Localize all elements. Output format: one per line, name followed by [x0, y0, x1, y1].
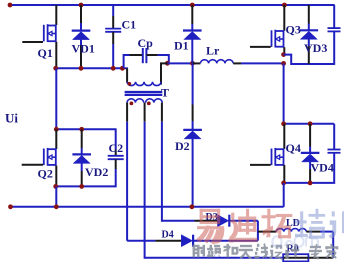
- junction: Q4 drain rail / Q4: [281, 121, 286, 126]
- diode VD3 (antiparallel): [300, 30, 319, 39]
- wire: Lr right pin: [233, 62, 241, 64]
- wire: mid rail (Q1 source node A): [55, 67, 128, 69]
- junction: mid rail / VD1 anode: [79, 66, 84, 71]
- wire: C2 top lead: [115, 128, 117, 149]
- wire: Q2 source lead: [55, 166, 57, 187]
- wire: D4 branch from secondary left lead: [127, 240, 155, 242]
- wire: Q1 drain from top rail: [55, 5, 57, 25]
- svg-text:T: T: [161, 86, 169, 100]
- transistor Q1: [44, 24, 56, 42]
- svg-text:D4: D4: [162, 230, 174, 241]
- junction: top rail / Q3 drain: [282, 3, 287, 8]
- diode VD2 (antiparallel): [72, 154, 91, 163]
- wire: D1 anode lead: [191, 39, 193, 63]
- wire: D1 cathode lead: [191, 5, 193, 30]
- svg-text:Ui: Ui: [5, 111, 18, 126]
- junction: top rail / VD1 cathode: [79, 3, 84, 8]
- wire: VD2 cathode lead: [81, 129, 83, 154]
- wire: bridge-right midpoint down to Q4 rail: [283, 63, 285, 123]
- svg-text:Q4: Q4: [286, 141, 301, 155]
- wire: Q3 gate lead: [250, 46, 271, 48]
- wire: D3 anode pin: [195, 220, 218, 222]
- capacitor C1: [105, 29, 121, 32]
- wire: D2 anode to bottom rail: [192, 139, 194, 207]
- wire: bottom negative input rail (node N): [10, 206, 284, 208]
- transistor Q2: [44, 148, 56, 166]
- wire: C2 bottom pin: [115, 159, 117, 169]
- wire: VD1 cathode lead: [80, 5, 82, 31]
- wire: Q3 source staircase to VD3/cap: [284, 55, 335, 64]
- wire: Cp to resonant node: [158, 55, 169, 63]
- wire: return to center tap: [145, 257, 284, 259]
- wire: VD1 anode to mid rail: [80, 39, 82, 68]
- polarity dot secondary-left: [130, 102, 134, 106]
- transformer T core: [125, 92, 163, 95]
- wire: Q4 gate lead: [250, 164, 271, 166]
- wire: Q4 drain lead: [283, 124, 285, 149]
- wire: Q3 source lead: [283, 47, 285, 54]
- junction: Q4 drain rail / VD4 cathode: [308, 121, 313, 126]
- junction: Q2 source rail / VD2 anode: [79, 184, 84, 189]
- wire: Q3 drain from top rail: [283, 5, 285, 31]
- wire: VD2 anode lead: [81, 163, 83, 186]
- junction: bottom rail / Q2 leg: [54, 204, 59, 209]
- wire: D4 anode pin: [155, 240, 181, 242]
- wire: Q2 source rail: [55, 185, 112, 187]
- svg-text:VD2: VD2: [85, 165, 108, 179]
- wire: Lr left pin: [192, 62, 200, 64]
- transformer T secondary right half: [146, 99, 163, 103]
- wire: VD4 cathode lead: [309, 124, 311, 153]
- wire: C2 top pin: [115, 150, 117, 156]
- svg-text:C1: C1: [122, 18, 137, 32]
- wire: load return to R0: [309, 257, 334, 259]
- svg-text:Q2: Q2: [38, 167, 53, 181]
- wire: transformer primary right lead: [161, 63, 167, 84]
- watermark: big title (semi-transparent): [196, 209, 344, 245]
- junction: resonant rail / D1 anode: [190, 61, 195, 66]
- wire: VD4 anode lead: [309, 162, 311, 183]
- transformer T primary winding: [127, 82, 161, 86]
- svg-text:Q1: Q1: [38, 46, 53, 60]
- diode VD4 (antiparallel): [301, 153, 320, 162]
- transistor Q4: [272, 148, 284, 166]
- junction: Q4 source rail / VD4 anode: [308, 181, 313, 186]
- wire: rectifier node vertical: [257, 221, 259, 241]
- wire: Q4 source to bottom rail: [283, 183, 285, 207]
- svg-text:D2: D2: [175, 139, 190, 153]
- diode D2 (clamp to -rail): [183, 130, 202, 139]
- wire: D3 branch from secondary right lead: [162, 220, 195, 222]
- diode D4: [181, 235, 193, 247]
- wire: secondary left lead: [126, 103, 128, 241]
- capacitor (snubber, Q3): [328, 28, 341, 31]
- wire: D4 cathode to rectifier node: [193, 240, 258, 242]
- wire: secondary right lead: [161, 103, 163, 222]
- wire: LD right pin: [306, 231, 333, 233]
- junction: Q2 source rail / Q2: [53, 184, 58, 189]
- junction: Q3 source node: [281, 52, 286, 57]
- junction: Q4 source rail / Q4: [281, 181, 286, 186]
- wire: load loop right side: [332, 232, 334, 258]
- capacitor (snubber, Q4): [328, 150, 341, 153]
- watermark: faint url ghost letters: [272, 236, 318, 246]
- wire: LD left pin: [258, 231, 276, 233]
- svg-text:VD4: VD4: [311, 161, 334, 175]
- resistor R0: [283, 254, 308, 261]
- junction: top rail / D1 cathode: [190, 3, 195, 8]
- wire: Cp right pin: [147, 54, 158, 56]
- wire: Q4 source lead: [283, 165, 285, 183]
- capacitor C2: [108, 156, 124, 159]
- wire: R0 wire through box: [283, 257, 308, 259]
- wire: top positive input rail (node P): [10, 4, 335, 6]
- wire: Q4 drain rail: [283, 123, 335, 125]
- wire: VD3 cathode lead: [308, 5, 310, 30]
- junction: mid rail / Q1 source: [53, 66, 58, 71]
- polarity dot secondary-mid: [147, 102, 151, 106]
- polarity dot primary: [127, 82, 131, 86]
- wire: snubber cap bottom lead (Q4): [331, 153, 334, 183]
- svg-text:VD3: VD3: [304, 41, 327, 55]
- wire: Q2 drain rail: [55, 128, 115, 130]
- wire: Q1 gate lead: [22, 41, 43, 43]
- inductor LD: [276, 229, 306, 232]
- wire: Q2 drain lead: [55, 129, 57, 149]
- wire: C1 bottom lead: [112, 32, 114, 68]
- junction: Q2 drain rail / VD2 cathode: [79, 127, 84, 132]
- svg-text:Q3: Q3: [286, 23, 301, 37]
- wire: snubber cap bottom lead (Q3): [333, 32, 335, 65]
- wire: Q4 source rail: [283, 182, 331, 184]
- transistor Q3: [272, 30, 284, 48]
- wire: C1 top lead: [112, 5, 114, 28]
- junction: resonant node / Cp: [165, 61, 170, 66]
- svg-text:D1: D1: [174, 39, 189, 53]
- capacitor Cp: [143, 48, 147, 63]
- wire: VD3 anode lead: [308, 39, 310, 64]
- svg-text:C2: C2: [109, 141, 124, 155]
- svg-text:Cp: Cp: [138, 36, 154, 50]
- junction: Q2 drain rail / Q2: [54, 127, 59, 132]
- watermark: subtitle line (gray): [193, 243, 339, 260]
- wire: D2 cathode lead: [192, 63, 194, 129]
- diode D1 (clamp to +rail): [183, 31, 202, 40]
- wire: Q2 source to bottom rail: [55, 186, 57, 206]
- svg-text:Lr: Lr: [206, 44, 220, 58]
- junction: mid rail / Cp branch: [120, 66, 125, 71]
- junction: Ui- terminal: [8, 204, 13, 209]
- junction: mid rail / C1 bottom: [111, 66, 116, 71]
- diode VD1 (antiparallel): [72, 31, 91, 40]
- wire: transformer primary left lead: [126, 68, 128, 82]
- wire: snubber cap top lead (right of Q3): [333, 5, 335, 28]
- wire: Q1 source to mid rail: [55, 42, 57, 69]
- wire: Cp left pin: [130, 54, 143, 56]
- inductor Lr: [200, 60, 233, 64]
- wire: bridge-left midpoint (Q1 source to Q2 drain): [55, 68, 57, 129]
- wire: resonant rail to D1: [167, 62, 192, 64]
- wire: snubber cap top lead (Q4): [333, 124, 335, 149]
- diode D3: [218, 215, 230, 227]
- junction: bridge-right midpoint: [281, 61, 286, 66]
- wire: secondary center tap lead: [144, 103, 146, 259]
- wire: C2 bottom to Q2 source rail: [112, 169, 116, 186]
- junction: Ui+ terminal: [8, 3, 13, 8]
- junction: bottom rail / D2 anode: [190, 204, 195, 209]
- wire: D3 cathode to rectifier node: [230, 220, 258, 222]
- transformer T secondary left half: [127, 99, 144, 103]
- wire: Q2 gate lead: [22, 164, 43, 166]
- svg-text:VD1: VD1: [72, 42, 95, 56]
- wire: Lr to bridge-right midpoint: [241, 62, 283, 64]
- wire: Cp branch riser: [124, 55, 143, 68]
